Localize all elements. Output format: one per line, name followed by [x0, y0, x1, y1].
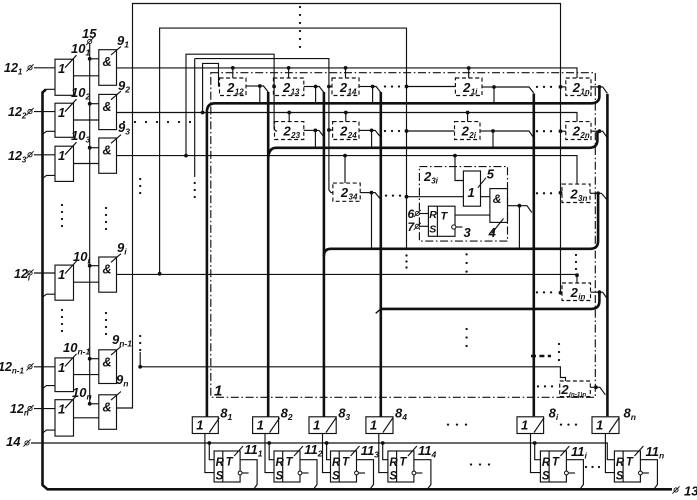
flip-flop 11n inverted output stub: [639, 471, 643, 475]
svg-text:1: 1: [58, 61, 65, 76]
matrix block 1 dash-dot boundary: [211, 73, 596, 398]
flip-flop 11n: [614, 451, 640, 482]
cell 2-34: [333, 183, 360, 201]
row-1 bus from AND 9-1 across matrix into cell 2-1n: [117, 68, 578, 78]
svg-text:&: &: [103, 263, 112, 277]
cell 2-1n: [566, 78, 591, 96]
wire block 5 to AND gate 4: [481, 196, 490, 198]
row n-1 collector bus stub (bold dashed): [531, 355, 551, 358]
omitted blocks dots bottom row: [447, 423, 449, 425]
svg-text:24: 24: [347, 131, 357, 140]
AND gate 4 inside cell 2-3i: [490, 189, 508, 223]
svg-text:2n: 2n: [579, 131, 589, 140]
cell 2-24 output wire, junction, drop and hook: [359, 129, 372, 131]
svg-text:S: S: [332, 471, 340, 483]
block 8i (element 1): [517, 417, 544, 434]
cell 2-23: [275, 122, 304, 140]
wire line 14 to flip-flop 11i R input: [535, 443, 541, 460]
flip-flop 114 inverted output stub: [412, 471, 416, 475]
cell 2-in output junction and hook to column-n bus: [591, 291, 600, 293]
row-2 omitted-cells dots: [384, 130, 386, 132]
cell 2-2n left input from column-n feed: [561, 130, 566, 132]
svg-text:1: 1: [58, 148, 65, 163]
svg-text:1: 1: [370, 418, 377, 433]
svg-text:S: S: [389, 471, 397, 483]
wire block 103 output to AND 93: [74, 163, 99, 165]
RS-T flip-flop 3 inside cell 2-3i: [428, 206, 455, 236]
cell 2-14: [332, 78, 359, 96]
svg-text:1: 1: [468, 185, 475, 200]
wire block 8n output to flip-flop 11n S input: [605, 434, 614, 473]
wire feedback bus to block 10n-1 second input: [43, 386, 56, 389]
wire input 122 to block 102: [34, 111, 55, 113]
wire feedback bus to block 10i second input: [43, 294, 56, 297]
block 82 (element 1): [253, 417, 279, 434]
svg-text:&: &: [103, 144, 112, 158]
wire input 121 to block 101: [34, 67, 55, 69]
wire line 14 to flip-flop 113 R input: [327, 443, 331, 460]
svg-text:12: 12: [235, 87, 244, 96]
cell 2-23 top stub: [288, 113, 290, 122]
svg-text:13: 13: [291, 87, 300, 96]
cell 2-23 output wire, junction, drop and hook: [304, 129, 316, 131]
cell 2-in: [562, 283, 591, 301]
bold collector column 1 feeding block 8-1 with row-1 collector bus: [207, 87, 600, 417]
block 103 (element 1): [55, 146, 74, 181]
svg-text:R: R: [542, 457, 551, 469]
wire input 123 to block 103: [34, 154, 55, 156]
wire line15 to AND 9i first input: [90, 265, 99, 267]
block 10i (element 1): [55, 265, 74, 300]
wire flip-flop T output to AND gate 4: [455, 214, 490, 216]
svg-text:&: &: [103, 55, 112, 69]
omitted wires dots between AND column and matrix: [123, 121, 125, 123]
svg-text:S: S: [216, 471, 224, 483]
flip-flop 3 inverted output and designator 3: [452, 225, 456, 229]
cell 2-12 output wire, junction, drop and hook to column-2 bus: [246, 85, 260, 87]
svg-text:1: 1: [214, 383, 222, 400]
cell 2-24 top stub: [345, 113, 347, 122]
wire feedback bus to block 10n second input: [43, 430, 56, 433]
svg-text:S: S: [276, 471, 284, 483]
cell 2-13: [273, 78, 303, 96]
flip-flop 11i T output to bus 13: [566, 460, 583, 490]
cell 2-3n: [562, 184, 590, 202]
svg-text:34: 34: [349, 193, 358, 202]
svg-text:&: &: [103, 100, 112, 114]
wire line 14 to flip-flop 111 R input: [209, 443, 214, 460]
AND gate 9n-1: [99, 350, 117, 384]
wire input 12i to block 10i: [34, 272, 55, 274]
cell 2-12 top stub from row-1 bus: [232, 68, 234, 78]
wire block 83 output to flip-flop 113 S input: [323, 434, 331, 473]
svg-text:1: 1: [596, 418, 603, 433]
wire column-i feed into block 5: [407, 196, 464, 198]
wire block 84 output to flip-flop 114 S input: [379, 434, 388, 473]
block 8n (element 1): [592, 417, 619, 434]
AND gate 9n: [99, 395, 117, 430]
svg-text:1n: 1n: [580, 87, 589, 96]
wire input 12n to block 10n: [34, 408, 55, 410]
svg-text:T: T: [552, 457, 560, 469]
column-4 feed lower stub (fades to omitted rows): [194, 59, 196, 177]
svg-text:6: 6: [408, 207, 415, 221]
bold collector column 3 feeding block 8-3: [323, 92, 326, 417]
cell 2-1i output wire, junction, drop and hook to column-i bus: [482, 86, 494, 88]
AND gate 92: [99, 94, 117, 129]
cell 2-2i output wire, junction, drop and hook: [480, 130, 493, 132]
column-n feed wire: AND 9n output up over the top to right column: [117, 4, 561, 409]
wire block 81 output to flip-flop 111 S input: [205, 434, 214, 473]
column-i feed continuation below cell 2-3i: [406, 197, 408, 250]
AND gate 93: [99, 138, 117, 173]
wire block 10i output to AND 9i: [74, 281, 99, 283]
flip-flop 112 inverted output stub: [298, 471, 302, 475]
svg-text:S: S: [616, 471, 624, 483]
cell 2-1i: [455, 78, 482, 96]
svg-text:4: 4: [488, 225, 497, 240]
cell 2-13 output wire, junction, drop and hook to column-3 bus: [304, 86, 316, 88]
svg-text:1: 1: [196, 418, 203, 433]
cell 2-1n left input from column-n feed: [561, 86, 566, 88]
wire block 101 output to AND 91: [74, 75, 99, 77]
wire line15 to AND 91 first input: [90, 58, 99, 60]
svg-text:1: 1: [257, 418, 264, 433]
row-1 omitted-cells dots: [384, 85, 386, 87]
block 5 (element 1) inside cell 2-3i: [463, 171, 480, 206]
AND gate 91: [99, 50, 117, 86]
cell 2-(n-1)n output junction and hook to column-n bus: [590, 386, 596, 388]
column-i feed wire from AND 9i output: [160, 28, 407, 274]
row-3 collector bus (bold): [324, 193, 598, 256]
omitted rows dots left column: [61, 204, 63, 206]
cell 2-2i: [455, 122, 481, 140]
cell 2-1i left input wire from column-i feed: [407, 86, 456, 88]
row-2 bus from AND 9-2: [117, 113, 578, 122]
bold collector column n feeding block 8n: [606, 94, 609, 416]
cell 2-2n output junction and hook: [591, 130, 599, 132]
cell 2-3i top stub from row-3 bus: [455, 156, 463, 181]
svg-text:1: 1: [521, 418, 528, 433]
svg-text:1: 1: [58, 267, 65, 282]
svg-text:23: 23: [290, 131, 300, 140]
expanded cell 2-3i dash-dot boundary: [419, 167, 507, 242]
cell 2-3n left input from column-n feed: [561, 192, 563, 194]
cell 2-2i top stub: [467, 113, 469, 122]
flip-flop 114 T output to bus 13: [414, 460, 431, 490]
flip-flop 111 inverted output stub: [238, 471, 242, 475]
row-n-1 omitted-cells dots: [537, 385, 539, 387]
flip-flop 113: [331, 451, 357, 482]
flip-flop 11i inverted output stub: [565, 471, 569, 475]
cell 2-14 left input junction and stub: [327, 85, 331, 89]
wire block 82 output to flip-flop 112 S input: [265, 434, 274, 473]
svg-text:S: S: [542, 471, 550, 483]
svg-text:R: R: [276, 457, 285, 469]
column-3 feed wire from AND 9-3 output: [186, 54, 277, 155]
bold collector column 4 feeding block 8-4: [379, 92, 382, 417]
svg-text:13: 13: [684, 484, 697, 499]
svg-text:R: R: [332, 457, 341, 469]
svg-text:S: S: [429, 224, 436, 236]
wire block 102 output to AND 92: [74, 119, 99, 121]
cell 2-1i top stub: [468, 68, 470, 78]
svg-text:2i: 2i: [468, 131, 476, 140]
flip-flop 113 T output to bus 13: [357, 460, 374, 490]
svg-text:5: 5: [487, 167, 495, 182]
block 81 (element 1): [192, 417, 218, 434]
column-n-1 feed wire from AND 9n-1 output (partially dotted): [139, 352, 141, 367]
omitted rows dots in right column: [575, 254, 577, 256]
cell 2-in left input from column-n feed: [561, 292, 563, 294]
wire block 8i output to flip-flop 11i S input: [531, 434, 541, 473]
terminal 13: [674, 488, 678, 492]
column-4 feed wire: [195, 59, 333, 193]
feedback bus left vertical (to output 13): [43, 89, 673, 489]
svg-text:R: R: [216, 457, 225, 469]
AND gate 9i: [99, 257, 117, 292]
svg-text:1: 1: [58, 360, 65, 375]
wire line15 to AND 9n-1 first input: [90, 358, 99, 360]
wire line 14 to flip-flop 114 R input: [383, 443, 388, 460]
svg-text:R: R: [616, 457, 625, 469]
row-i omitted-cells dots: [536, 291, 538, 293]
svg-text:T: T: [342, 457, 350, 469]
wire feedback bus to block 102 second input: [43, 131, 56, 134]
wire feedback bus to block 101 second input: [43, 89, 56, 92]
cell 2-13 top stub: [288, 68, 290, 78]
wire feedback bus to block 103 second input: [43, 175, 56, 178]
cell 2-in top bend junction: [575, 273, 579, 277]
wire line15 to AND 9n first input: [90, 403, 99, 405]
svg-text:T: T: [286, 457, 294, 469]
row-2 collector bus (bold): [268, 131, 597, 160]
cell 2-2n: [566, 122, 591, 140]
column-2 feed wire from AND 9-2 output: [203, 63, 220, 112]
svg-text:3n: 3n: [578, 194, 587, 203]
block 10n-1 (element 1): [55, 358, 74, 392]
cell 2-34 top stub: [344, 156, 346, 184]
svg-text:&: &: [103, 400, 112, 414]
cell 2-34 output wire, junction, drop and hook: [360, 192, 371, 194]
row-3 omitted-cells dots: [385, 194, 387, 196]
wire line15 to AND 92 first input: [90, 103, 99, 105]
flip-flop 112 T output to bus 13: [300, 460, 317, 490]
flip-flop 112: [274, 451, 300, 482]
block 10n (element 1): [55, 400, 74, 436]
column-i omitted cells dots: [465, 253, 467, 255]
svg-text:14: 14: [6, 434, 21, 449]
row-i collector bus (bold): [381, 292, 600, 309]
svg-text:1i: 1i: [471, 87, 478, 96]
AND gate 4 output junction, drop to row-3 bus and hook to column-i bus: [508, 205, 520, 207]
cell 2-24 left input junction: [327, 128, 331, 132]
flip-flop 114: [388, 451, 414, 482]
wire line15 to AND 93 first input: [90, 147, 99, 149]
block 102 (element 1): [55, 103, 74, 137]
svg-text:1: 1: [58, 105, 65, 120]
dotted continuation top centre: [299, 6, 301, 8]
cell 2-3n output junction, drop to row-3 bus and hook: [590, 192, 598, 194]
cell 2-12: [220, 78, 247, 96]
svg-text:R: R: [429, 209, 437, 221]
svg-text:&: &: [103, 355, 112, 369]
wire line 14 to flip-flop 112 R input: [269, 443, 274, 460]
row-n-1 bus from AND 9n-1 into cell 2(n-1)n top: [140, 367, 565, 381]
cell 2-14 top stub: [345, 68, 347, 78]
flip-flop 111 T output to bus 13: [240, 460, 257, 490]
svg-text:14: 14: [348, 87, 357, 96]
row-3 bus from AND 9-3: [117, 156, 578, 185]
svg-text:&: &: [493, 192, 502, 206]
flip-flop 113 inverted output stub: [355, 471, 359, 475]
wire input 12n-1 to block 10n-1: [34, 366, 55, 368]
svg-text:T: T: [626, 457, 634, 469]
svg-text:15: 15: [82, 26, 97, 41]
wire block 10n output to AND 9n: [74, 417, 99, 419]
block 101 (element 1): [55, 59, 74, 95]
svg-text:in: in: [578, 292, 585, 301]
svg-text:T: T: [226, 457, 234, 469]
svg-text:T: T: [399, 457, 407, 469]
cell 2-1n output junction and hook to column-n bus: [591, 86, 599, 88]
flip-flop 111: [214, 451, 240, 482]
cell 2-13 left input junction: [272, 85, 276, 89]
line 14 horizontal (reset bus): [31, 443, 614, 460]
row-i bus from AND 9i: [117, 274, 578, 283]
wire block 10n-1 output to AND 9n-1: [74, 374, 99, 376]
svg-text:1: 1: [58, 402, 65, 417]
cell 2-2i left input wire from column-i feed: [407, 130, 455, 132]
svg-text:R: R: [389, 457, 398, 469]
flip-flop 11n T output to bus 13: [640, 460, 657, 490]
cell 2-14 output wire, junction, drop and hook to column-4 bus: [359, 86, 373, 88]
bold collector column 2 feeding block 8-2: [267, 92, 270, 417]
bold collector column i feeding block 8i: [532, 94, 535, 417]
cell 2-24: [333, 122, 359, 140]
flip-flop 11i: [540, 451, 566, 482]
cell 2-(n-1)n: [560, 381, 591, 397]
wire line 15 vertical: [89, 44, 91, 404]
svg-text:3: 3: [464, 225, 472, 240]
block 83 (element 1): [309, 417, 336, 434]
svg-text:1: 1: [313, 418, 320, 433]
block 84 (element 1): [366, 417, 393, 434]
svg-text:(n-1)n: (n-1)n: [569, 391, 586, 398]
